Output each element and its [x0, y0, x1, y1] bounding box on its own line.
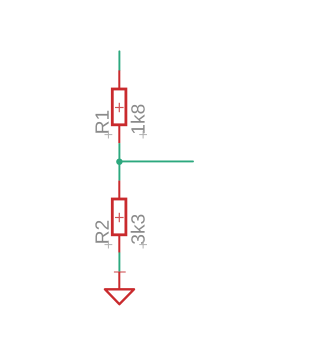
- resistor R1 body: [112, 89, 126, 125]
- ground GND triangle: [105, 289, 134, 304]
- wire W1 (top vertical net segment): [118, 51, 120, 70]
- label R2 anchor cross: [105, 241, 113, 249]
- junction node: [116, 159, 122, 165]
- wire W5 (R2 to ground): [118, 252, 120, 272]
- resistor R2 body: [112, 199, 126, 235]
- resistor R1 pin 2: [118, 125, 120, 143]
- resistor R1 pin 1: [118, 70, 120, 90]
- value 3k3: [131, 215, 145, 244]
- value 1k8: [131, 105, 145, 134]
- ground GND pin: [118, 272, 120, 290]
- resistor R2 pin 2: [118, 235, 120, 253]
- resistor R2 pin 1: [118, 181, 120, 200]
- resistor R2 origin cross: [115, 213, 124, 222]
- wire W4 (junction to R2): [118, 162, 120, 181]
- wire W2 (R1 to junction): [118, 143, 120, 161]
- value 1k8 anchor cross: [139, 131, 147, 139]
- label R1: [95, 111, 108, 133]
- resistor R1 origin cross: [115, 103, 124, 112]
- value 3k3 anchor cross: [139, 241, 147, 249]
- ground GND pin tick: [114, 271, 126, 273]
- label R2: [95, 221, 108, 243]
- wire W3 (horizontal tap): [119, 160, 193, 162]
- label R1 anchor cross: [105, 131, 113, 139]
